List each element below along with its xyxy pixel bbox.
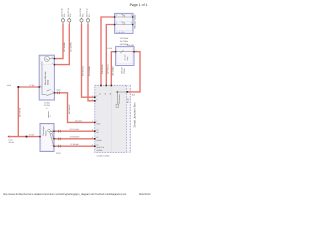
svg-text:6: 6: [92, 144, 93, 147]
M1 pin numbers: [40, 56, 52, 93]
svg-text:F35: F35: [81, 14, 84, 17]
svg-text:34 C505a: 34 C505a: [120, 40, 129, 43]
svg-text:F2.30: F2.30: [127, 98, 130, 103]
M1 component name (vertical): [44, 71, 50, 85]
svg-text:GD134: GD134: [8, 141, 14, 144]
svg-text:C2280b: C2280b: [96, 149, 102, 152]
svg-text:5 C510: 5 C510: [106, 47, 112, 50]
svg-text:14: 14: [104, 93, 107, 95]
svg-text:199 GN/BU: 199 GN/BU: [111, 66, 114, 76]
M2 motor circles: [48, 129, 53, 133]
wire W12 M2 pin1 to SJB: [54, 130, 95, 132]
fuse F1: [61, 18, 64, 24]
svg-text:4: 4: [92, 98, 93, 101]
svg-text:2: 2: [96, 95, 97, 98]
fuse F4 value label: [86, 8, 91, 17]
svg-text:973 BN/WH: 973 BN/WH: [88, 65, 91, 76]
node pins at SJB top edge: [100, 85, 128, 93]
wire W14 M2 pin3 to SJB: [54, 145, 95, 147]
M2 pin numbers: [52, 129, 53, 147]
K1 contact line: [115, 50, 134, 53]
svg-text:7: 7: [96, 120, 97, 123]
SW1 connector label rows below box: [120, 37, 129, 46]
svg-text:57 BK: 57 BK: [30, 84, 36, 87]
svg-text:Smart Junction Box: Smart Junction Box: [132, 102, 136, 128]
svg-text:24: 24: [96, 144, 98, 147]
connector ticks on W13: [59, 137, 61, 140]
svg-text:Page 1 of 1: Page 1 of 1: [130, 3, 148, 7]
wire W9 M1 pin3 to SJB: [54, 93, 94, 123]
M2 component name (vertical): [42, 126, 47, 136]
svg-text:Motor: Motor: [45, 130, 48, 135]
wire W11 splice run to M2: [10, 136, 40, 138]
svg-text:1 2 3 4 5 6: 1 2 3 4 5 6: [116, 31, 125, 34]
svg-text:972 GY/OG: 972 GY/OG: [82, 66, 85, 76]
svg-text:4: 4: [96, 98, 97, 101]
wire W5 fuse F1 to M1 pin1: [54, 24, 63, 59]
connector C527 ticks on W12: [59, 130, 61, 133]
svg-text:http-//www.fordtechservice.dea: http-//www.fordtechservice.dealerconnect…: [3, 193, 127, 196]
M1 connector label rows below box: [44, 101, 50, 110]
svg-text:557 BK/OG: 557 BK/OG: [107, 64, 110, 74]
connector ticks on W14: [59, 145, 61, 148]
svg-text:Motor: Motor: [47, 79, 50, 85]
svg-text:F12: F12: [88, 14, 91, 17]
svg-text:257 WH/BK: 257 WH/BK: [63, 41, 66, 52]
svg-text:C501b: C501b: [123, 68, 126, 74]
M1 switch contacts: [42, 89, 54, 95]
svg-text:2 C254: 2 C254: [44, 104, 50, 107]
motor M2 window motor (bottom left box): [40, 124, 54, 152]
svg-text:7: 7: [92, 120, 93, 123]
svg-text:951 BK/GY: 951 BK/GY: [68, 104, 71, 114]
ground lead below M1: [48, 111, 52, 118]
SW1 contact line 2: [115, 23, 133, 25]
svg-text:23: 23: [96, 136, 98, 139]
fuse F4: [86, 18, 89, 24]
SW1 right pin squares: [132, 16, 133, 25]
svg-text:C505: C505: [56, 89, 60, 92]
wire W8 fuse F4 to SJB: [88, 24, 95, 101]
svg-text:Driver Window: Driver Window: [44, 71, 47, 85]
K1 connector label (vertical, below box): [120, 67, 125, 74]
svg-text:30A F21: 30A F21: [127, 44, 134, 47]
svg-text:relay: relay: [126, 57, 129, 61]
svg-text:GND RTN: GND RTN: [96, 146, 104, 149]
svg-text:DOWN: DOWN: [96, 139, 102, 142]
svg-text:1 C254: 1 C254: [44, 101, 50, 104]
SJB top pin labels (vertical): [99, 93, 112, 95]
M1 internal wire: [39, 61, 42, 94]
M1 motor circle: [44, 56, 54, 61]
connector C505 ticks on W9: [56, 89, 60, 95]
SJB left pin labels: [96, 95, 104, 152]
wire W2 SW1 pin4 to SJB: [106, 25, 114, 86]
svg-text:Window Switch: Window Switch: [134, 14, 137, 29]
svg-text:22: 22: [96, 129, 98, 132]
motor M1 driver window motor (tall left box): [39, 55, 54, 100]
svg-text:321 WH/PK: 321 WH/PK: [70, 41, 73, 52]
SJB external pin numbers: [92, 95, 93, 147]
wire W11 destination labels: [8, 138, 14, 143]
svg-text:16: 16: [109, 93, 112, 95]
svg-text:3: 3: [46, 107, 47, 110]
svg-text:514 RD/YE: 514 RD/YE: [101, 64, 104, 74]
svg-text:9: 9: [92, 136, 93, 139]
fuse F2: [68, 18, 71, 24]
svg-text:F14: F14: [69, 14, 72, 17]
wire W1 SW1 pin2 to SJB: [101, 17, 115, 85]
connector U2 Smart Junction Box (big dashed box): [95, 85, 130, 152]
svg-text:972 GY/OG: 972 GY/OG: [70, 128, 80, 131]
svg-text:C270: C270: [56, 152, 61, 155]
svg-text:F36: F36: [63, 14, 66, 17]
svg-text:3: 3: [131, 22, 132, 25]
splice S310 junction: [17, 86, 19, 88]
svg-text:S310: S310: [7, 84, 11, 87]
breaker CB1 inside SJB: [116, 91, 127, 107]
svg-text:1: 1: [131, 14, 132, 17]
node pins at SJB left edge: [94, 96, 96, 147]
wire W4 K1 to SJB breaker: [127, 52, 140, 92]
svg-text:2: 2: [92, 95, 93, 98]
fuse F3: [80, 18, 83, 24]
svg-text:57 BK/WH: 57 BK/WH: [70, 143, 79, 146]
node pins at component edges: [39, 16, 135, 147]
fuse F3 value label: [79, 8, 84, 17]
fuse F2 value label: [67, 8, 72, 17]
wire W7 fuse F3 to SJB: [82, 24, 95, 98]
svg-text:. . . . . .: . . . . . .: [117, 15, 122, 17]
relay K1 (middle right box): [116, 46, 134, 65]
svg-text:19 C527: 19 C527: [75, 120, 82, 123]
switch assembly SW1 (top box): [115, 13, 133, 33]
fuse F1 value label: [61, 8, 66, 17]
svg-text:C2280b C2280c: C2280b C2280c: [97, 155, 110, 158]
svg-text:957 BK/YE: 957 BK/YE: [19, 107, 22, 117]
svg-text:12 C501b: 12 C501b: [120, 37, 128, 40]
svg-text:973 BN/WH: 973 BN/WH: [70, 135, 80, 138]
svg-text:12: 12: [99, 93, 102, 95]
wire W3 K1 to SJB top: [111, 52, 115, 86]
svg-text:. . . . . .: . . . . . .: [117, 23, 122, 25]
wire W11 arrow head: [7, 135, 9, 138]
wire W10 M1 left pin to splice S310: [18, 87, 39, 137]
splice S231 junction: [26, 136, 28, 138]
svg-text:57 BK: 57 BK: [29, 134, 35, 137]
SW1 pin numbers and value labels: [116, 14, 132, 34]
wire W6 fuse F2 to M1 pin2: [54, 24, 69, 65]
SW1 contact line 1: [115, 15, 133, 17]
svg-text:CB window: CB window: [118, 94, 121, 104]
M2 switch contacts: [50, 131, 54, 146]
K1 internal labels: [123, 55, 128, 61]
svg-text:8: 8: [92, 129, 93, 132]
svg-text:8/26/2010: 8/26/2010: [139, 193, 151, 196]
wire W13 M2 pin2 to SJB: [54, 138, 95, 140]
